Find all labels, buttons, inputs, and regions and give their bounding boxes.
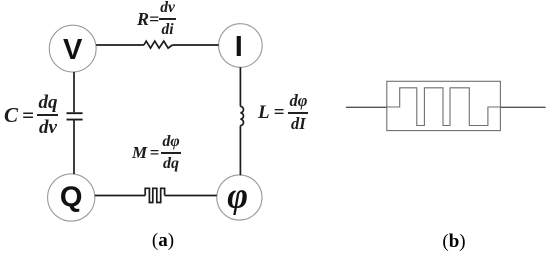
equation C = dq/dv [4,94,58,136]
node I circle [219,24,263,68]
equation L = dphi/dI [258,94,308,132]
svg-text:Q: Q [60,182,83,214]
wire I to inductor [239,67,241,106]
node phi circle [217,175,262,220]
capacitor C plates [67,113,83,119]
node V circle [49,25,96,72]
caption (b) [434,231,474,253]
wire Q to memristor [95,195,145,197]
resistor R (zigzag) [144,41,173,48]
inductor L coil [240,106,243,125]
wire capacitor to Q [73,121,75,175]
svg-text:I: I [235,31,243,63]
memristor (b) square wave [387,88,501,126]
memristor (b) left lead [346,106,387,108]
memristor M (square wave) [145,188,164,202]
equation R = dv/di [137,3,176,35]
svg-text:V: V [63,34,83,66]
equation M = dphi/dq [132,135,181,171]
wire inductor to phi [239,126,241,176]
svg-text:φ: φ [227,176,248,216]
wire resistor to I [172,44,218,46]
caption (a) [143,230,183,252]
wire memristor to phi [165,195,217,197]
node Q circle [48,174,95,221]
wire V to capacitor [73,72,75,112]
memristor (b) body rectangle [387,81,501,130]
wire V to resistor [96,44,144,46]
memristor (b) right lead [500,106,545,108]
